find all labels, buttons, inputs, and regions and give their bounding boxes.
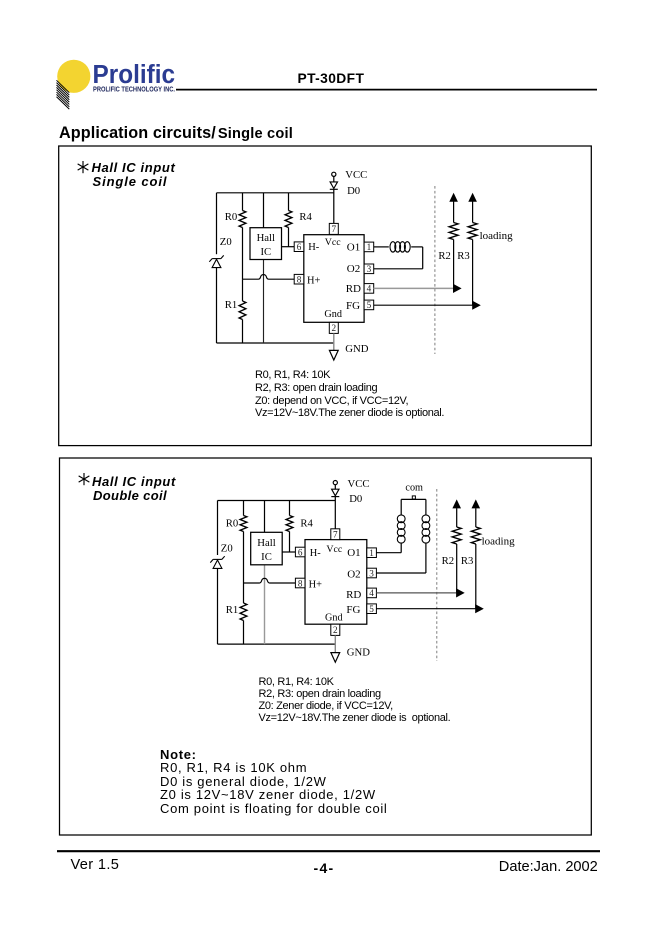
svg-text:Z0: Z0 [221,543,233,555]
svg-text:FG: FG [346,300,360,312]
svg-text:R4: R4 [299,211,312,223]
svg-text:R1: R1 [226,604,238,616]
svg-text:H-: H- [308,242,320,253]
svg-text:R3: R3 [461,555,473,567]
svg-text:R0: R0 [226,517,238,529]
svg-text:R0: R0 [225,211,237,223]
svg-text:IC: IC [261,551,272,563]
svg-text:8: 8 [297,275,302,285]
svg-text:R3: R3 [457,250,469,262]
svg-text:H-: H- [310,548,322,559]
svg-text:VCC: VCC [345,169,367,181]
svg-text:Hall: Hall [257,537,275,549]
svg-text:H+: H+ [307,275,321,286]
svg-text:O1: O1 [347,547,360,559]
svg-text:loading: loading [480,230,513,242]
svg-text:7: 7 [333,530,338,540]
svg-text:R2: R2 [438,250,450,262]
svg-text:2: 2 [333,625,338,635]
svg-text:loading: loading [482,536,515,548]
svg-text:1: 1 [367,242,372,252]
svg-text:1: 1 [369,548,374,558]
svg-text:D0: D0 [347,185,360,197]
svg-text:2: 2 [332,323,337,333]
svg-text:IC: IC [260,246,271,258]
svg-text:Gnd: Gnd [324,309,342,320]
svg-text:H+: H+ [309,579,323,590]
svg-text:PROLIFIC TECHNOLOGY INC.: PROLIFIC TECHNOLOGY INC. [93,85,175,94]
svg-text:R4: R4 [300,517,313,529]
svg-text:O2: O2 [347,263,360,275]
svg-text:com: com [405,482,423,493]
svg-text:O2: O2 [347,568,360,580]
svg-text:4: 4 [367,284,372,294]
svg-text:Vcc: Vcc [325,237,342,248]
svg-text:O1: O1 [347,242,360,254]
svg-text:FG: FG [346,604,360,616]
svg-text:GND: GND [345,343,368,355]
svg-text:6: 6 [297,242,302,252]
svg-text:D0: D0 [349,493,362,505]
svg-text:Hall: Hall [257,232,275,244]
svg-text:R2: R2 [442,555,454,567]
svg-text:4: 4 [369,588,374,598]
svg-text:Gnd: Gnd [325,612,343,623]
svg-text:Vcc: Vcc [326,544,343,555]
svg-text:RD: RD [346,283,361,295]
svg-text:R1: R1 [225,299,237,311]
svg-text:RD: RD [346,589,361,601]
svg-text:3: 3 [369,568,374,578]
svg-text:6: 6 [298,547,303,557]
svg-text:8: 8 [298,578,303,588]
svg-text:GND: GND [347,646,370,658]
svg-text:VCC: VCC [348,478,370,490]
svg-text:7: 7 [332,224,337,234]
svg-text:Z0: Z0 [220,236,232,248]
svg-text:5: 5 [367,300,372,310]
svg-text:5: 5 [369,604,374,614]
svg-text:3: 3 [367,264,372,274]
